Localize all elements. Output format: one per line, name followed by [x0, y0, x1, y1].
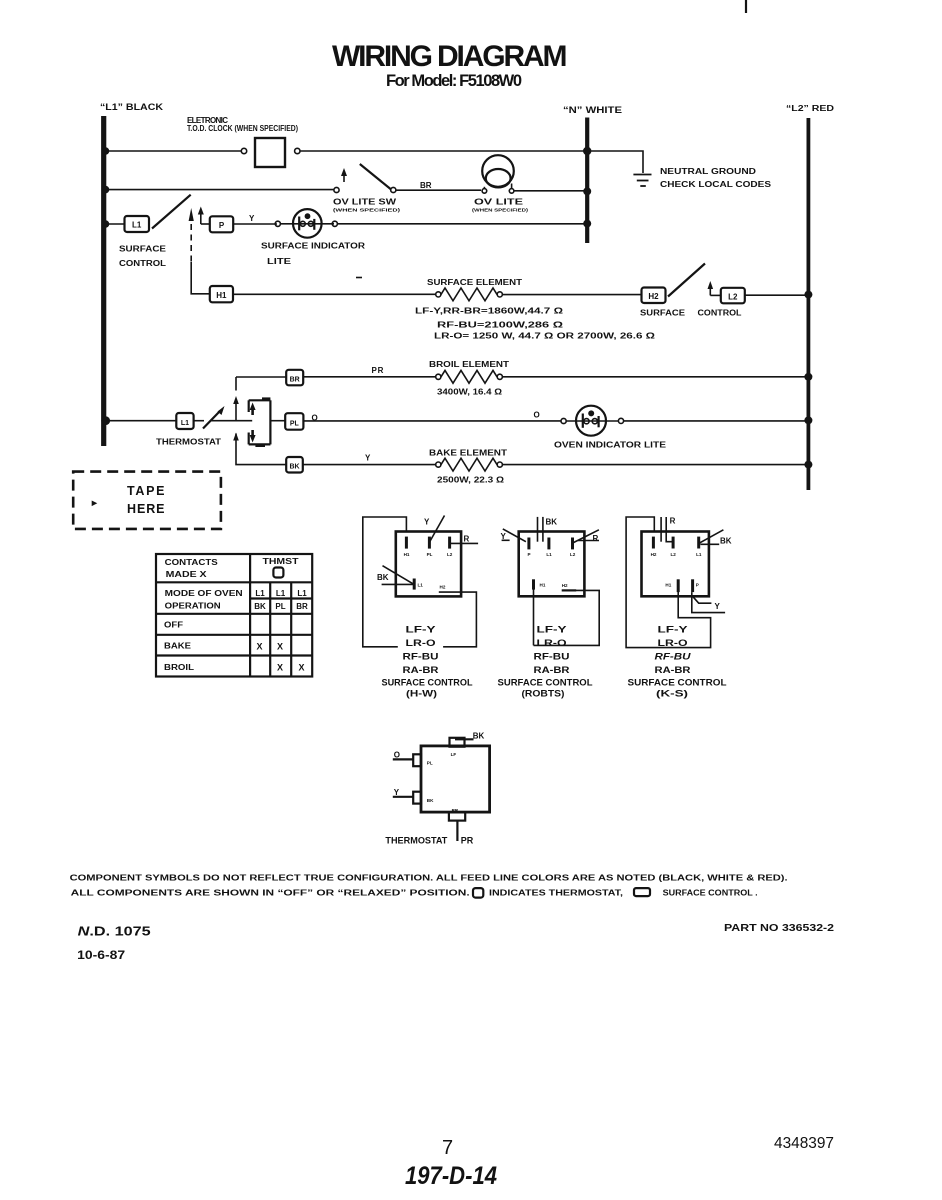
lamp DS2 surface indicator [281, 209, 335, 238]
table thermostat symbol [273, 568, 283, 578]
wire L1 to thermostat [104, 420, 176, 422]
svg-text:(WHEN SPECIFIED): (WHEN SPECIFIED) [333, 208, 401, 213]
bus L2 red [807, 118, 811, 490]
pin element right terminal [497, 292, 502, 297]
svg-text:HERE: HERE [127, 502, 167, 516]
lamp DS3 oven indicator [566, 406, 618, 436]
svg-text:L1: L1 [696, 552, 702, 557]
wire PL to oven indicator [304, 420, 561, 422]
svg-text:7: 7 [442, 1137, 453, 1159]
svg-text:BK: BK [473, 732, 485, 741]
sc3 pin L2 [672, 537, 675, 549]
relay contact L1 box [125, 216, 150, 232]
svg-text:SURFACE CONTROL: SURFACE CONTROL [498, 678, 594, 688]
svg-text:L2: L2 [671, 552, 677, 557]
svg-text:X: X [298, 662, 304, 672]
svg-text:TAPE: TAPE [127, 484, 167, 498]
sc2 box U3 [519, 532, 585, 597]
svg-text:INDICATES THERMOSTAT,: INDICATES THERMOSTAT, [489, 889, 623, 898]
sc3 wire R double [660, 517, 662, 542]
node junction L2 surface row [804, 291, 812, 299]
node junction N row2 [583, 187, 591, 195]
sc1 blade Y [429, 516, 445, 544]
svg-text:L1: L1 [276, 589, 286, 598]
thermostat tab Y [413, 792, 421, 804]
svg-text:THERMOSTAT: THERMOSTAT [156, 438, 221, 447]
pin broil right terminal [497, 374, 502, 379]
svg-text:RF-BU: RF-BU [534, 652, 570, 662]
bus L1 black [101, 116, 106, 446]
switch S1 blade [360, 164, 391, 189]
sc2 loop wire [534, 589, 600, 645]
wire BK to bake element [303, 464, 436, 466]
wire indicator to N [338, 223, 588, 225]
wire P to indicator [233, 223, 277, 225]
thermostat T1 box [249, 400, 271, 444]
svg-text:BK: BK [254, 602, 266, 611]
svg-text:Y: Y [424, 518, 430, 527]
wire arrow to L2 box [710, 294, 721, 296]
svg-text:For Model: F5108W0: For Model: F5108W0 [386, 72, 522, 90]
svg-text:OVEN INDICATOR LITE: OVEN INDICATOR LITE [554, 441, 667, 450]
sc3 pin P [691, 579, 694, 592]
clock U1 box [255, 138, 285, 167]
sc2 pin P [527, 538, 530, 550]
svg-text:H2: H2 [562, 583, 568, 588]
svg-text:RA-BR: RA-BR [534, 665, 571, 675]
contact arrow broil [233, 396, 239, 404]
wire linkage to H1 [191, 262, 209, 294]
wire bake to L2 [502, 464, 808, 466]
node junction L1 row1 [102, 147, 110, 155]
svg-text:P: P [219, 221, 225, 230]
sc2 blade R [572, 530, 599, 544]
node junction N row3 [583, 220, 591, 228]
footer surface control symbol [634, 888, 650, 896]
svg-text:SURFACE CONTROL: SURFACE CONTROL [382, 678, 474, 688]
pin indicator left terminal [275, 221, 280, 226]
stray mark [356, 277, 362, 279]
wire element to H2 [502, 294, 641, 296]
svg-text:3400W, 16.4 Ω: 3400W, 16.4 Ω [437, 388, 503, 397]
mech linkage arrowhead [189, 208, 194, 221]
svg-text:(WHEN SPECIFIED): (WHEN SPECIFIED) [472, 208, 529, 213]
svg-text:P: P [696, 583, 699, 588]
node junction L2 broil [804, 373, 812, 381]
relay contact P box [210, 216, 233, 232]
svg-text:H2: H2 [440, 585, 446, 590]
svg-text:BROIL: BROIL [164, 663, 194, 672]
surface control K-S unit [626, 517, 732, 699]
svg-text:4348397: 4348397 [774, 1135, 834, 1152]
resistor broil element [441, 370, 497, 383]
sc2 pin H1 [532, 579, 535, 589]
wire arrow to P box [201, 223, 210, 225]
contact arrow P [200, 212, 202, 224]
thermostat bottom tab [449, 812, 465, 821]
svg-text:LR-O: LR-O [406, 638, 436, 648]
svg-text:CHECK LOCAL CODES: CHECK LOCAL CODES [660, 180, 772, 189]
svg-text:BR: BR [290, 376, 300, 383]
svg-text:L1: L1 [132, 221, 142, 230]
svg-text:10-6-87: 10-6-87 [77, 948, 125, 962]
svg-text:PL: PL [275, 602, 285, 611]
relay contact L2 box [721, 288, 745, 304]
svg-text:BROIL ELEMENT: BROIL ELEMENT [429, 360, 509, 369]
svg-text:OV LITE: OV LITE [474, 198, 524, 207]
svg-text:CONTROL: CONTROL [698, 309, 742, 318]
relay contact H1 box [210, 286, 233, 302]
svg-text:SURFACE ELEMENT: SURFACE ELEMENT [427, 278, 522, 287]
thermostat tab O [413, 754, 421, 766]
sc1 pin H1 [405, 537, 408, 549]
relay contact BK box [286, 457, 303, 473]
sc1 blade BK [383, 566, 415, 585]
wire L2 box to L2 bus [745, 294, 808, 296]
thermostat inner arrow down [251, 430, 254, 438]
svg-text:LF: LF [451, 752, 457, 757]
sc3 wire Y [693, 596, 712, 603]
wire PR detail [456, 821, 458, 841]
sc2 pin L2 [571, 538, 574, 550]
svg-text:H1: H1 [404, 552, 410, 557]
svg-text:BR: BR [420, 181, 432, 190]
svg-text:THMST: THMST [263, 557, 299, 566]
svg-text:X: X [277, 642, 283, 652]
surface control ROBTS unit [498, 517, 600, 699]
sc2 pin L1 [547, 538, 550, 550]
node junction L2 bake [804, 461, 812, 469]
pin indicator right terminal [332, 221, 337, 226]
svg-text:RA-BR: RA-BR [403, 665, 440, 675]
node junction L1 thermostat [101, 416, 110, 425]
svg-text:SURFACE CONTROL: SURFACE CONTROL [628, 678, 728, 688]
svg-text:2500W, 22.3 Ω: 2500W, 22.3 Ω [437, 476, 505, 485]
contacts table frame [156, 554, 312, 677]
svg-text:L2: L2 [570, 552, 576, 557]
svg-text:L1: L1 [418, 583, 424, 588]
svg-text:LR-O: LR-O [658, 638, 688, 648]
sc1 pin L2 [448, 537, 451, 549]
svg-text:T.O.D. CLOCK (WHEN SPECIFIED): T.O.D. CLOCK (WHEN SPECIFIED) [187, 124, 298, 133]
pin oven-ind right terminal [618, 418, 623, 423]
node junction N row1 [583, 147, 591, 155]
svg-text:LF-Y: LF-Y [406, 625, 436, 635]
svg-text:BAKE ELEMENT: BAKE ELEMENT [429, 449, 507, 458]
ground neutral wire [589, 151, 643, 173]
svg-text:“L2” RED: “L2” RED [786, 104, 834, 113]
svg-text:H1: H1 [540, 583, 546, 588]
wire broil feed vertical [235, 377, 237, 391]
svg-text:Y: Y [249, 214, 255, 223]
svg-text:L1: L1 [181, 420, 189, 427]
svg-text:L2: L2 [447, 552, 453, 557]
svg-text:H1: H1 [216, 291, 227, 300]
sc3 box U4 [642, 532, 709, 597]
svg-text:SURFACE: SURFACE [640, 309, 686, 318]
svg-text:ALL COMPONENTS ARE SHOWN IN “O: ALL COMPONENTS ARE SHOWN IN “OFF” OR “RE… [71, 889, 470, 898]
svg-text:BAKE: BAKE [164, 642, 192, 651]
svg-text:LF-Y: LF-Y [537, 625, 567, 635]
sc3 blade BK [699, 530, 724, 544]
sc3 pin L1 [697, 537, 700, 549]
node junction L2 oven row [804, 416, 812, 424]
svg-text:LITE: LITE [267, 257, 292, 266]
svg-text:SURFACE: SURFACE [119, 245, 167, 254]
tape here box [73, 472, 221, 529]
pin broil left terminal [436, 374, 441, 379]
wire broil row left [236, 376, 286, 378]
svg-text:PR: PR [461, 836, 474, 846]
wire ov-lite to N [514, 190, 588, 192]
svg-text:BK: BK [427, 798, 434, 803]
switch blade surface control [152, 195, 191, 229]
wire Y detail [393, 796, 413, 798]
wire bake feed vertical [236, 441, 286, 465]
svg-text:L1: L1 [255, 589, 265, 598]
svg-text:H2: H2 [648, 292, 659, 301]
svg-text:Y: Y [365, 454, 371, 463]
svg-text:R: R [464, 535, 470, 544]
svg-text:NEUTRAL GROUND: NEUTRAL GROUND [660, 167, 756, 176]
svg-text:COMPONENT SYMBOLS DO NOT REFLE: COMPONENT SYMBOLS DO NOT REFLECT TRUE CO… [70, 874, 788, 883]
sc1 pin PL [428, 537, 431, 549]
pin element left terminal [436, 292, 441, 297]
svg-text:L2: L2 [728, 292, 738, 301]
pin switch S1 left terminal [334, 187, 339, 192]
wire switch to ov-lite [396, 189, 481, 191]
pin switch S1 right terminal [391, 187, 396, 192]
wire thermostat to PL [270, 420, 285, 422]
svg-text:OFF: OFF [164, 621, 183, 630]
wire broil to L2 [502, 376, 808, 378]
resistor surface element [441, 288, 497, 301]
thermostat body box [421, 746, 490, 812]
svg-text:H2: H2 [651, 552, 657, 557]
svg-text:MODE OF OVEN: MODE OF OVEN [165, 589, 243, 598]
relay contact H2 box [642, 288, 666, 304]
svg-text:LR-O: LR-O [537, 638, 567, 648]
svg-text:MADE X: MADE X [166, 570, 208, 579]
surface control H-W unit [363, 516, 478, 699]
wire BK detail [455, 738, 474, 740]
switch blade H2 [668, 264, 705, 297]
svg-text:BK: BK [720, 537, 732, 546]
svg-text:(H-W): (H-W) [406, 689, 437, 699]
svg-text:Y: Y [394, 788, 400, 797]
sc3 pin H2 [652, 537, 655, 549]
svg-text:SURFACE CONTROL .: SURFACE CONTROL . [663, 889, 758, 898]
svg-text:(ROBTS): (ROBTS) [522, 689, 565, 699]
svg-text:“L1” BLACK: “L1” BLACK [100, 102, 164, 112]
svg-text:Y: Y [715, 602, 721, 611]
wire L1 to clock [104, 150, 241, 152]
relay contact L1 thermostat box [176, 413, 193, 429]
svg-text:BR: BR [296, 602, 308, 611]
svg-text:WIRING DIAGRAM: WIRING DIAGRAM [332, 40, 570, 73]
svg-text:L1: L1 [546, 552, 552, 557]
sc1 outer loop wire [363, 517, 407, 647]
sc2 wire BK double [537, 517, 539, 542]
node junction L1 row3 [102, 220, 110, 228]
svg-text:BK: BK [377, 573, 389, 582]
thermostat detail unit [385, 732, 489, 846]
wire BR to broil element [303, 376, 436, 378]
wire O detail [393, 758, 413, 760]
svg-text:CONTROL: CONTROL [119, 259, 166, 268]
wire clock to N [300, 150, 587, 152]
pin clock left terminal [241, 148, 246, 153]
svg-text:THERMOSTAT: THERMOSTAT [385, 836, 447, 846]
sc1 pin L1 [413, 579, 416, 590]
wire L1 to ov-lite-switch [104, 189, 334, 191]
svg-text:L1: L1 [297, 589, 307, 598]
sc1 box U2 [396, 532, 461, 597]
pin clock right terminal [295, 148, 300, 153]
svg-text:X: X [256, 642, 262, 652]
svg-text:197-D-14: 197-D-14 [405, 1162, 497, 1190]
wire thermostat switch left [194, 420, 204, 422]
pin bake right terminal [497, 462, 502, 467]
svg-text:R: R [593, 534, 599, 543]
thermostat notch bottom [255, 444, 265, 447]
svg-text:O: O [394, 751, 400, 760]
ground symbol [633, 175, 651, 187]
thermostat contact vertical [235, 434, 237, 442]
svg-text:PR: PR [372, 366, 385, 375]
svg-text:H1: H1 [665, 583, 671, 588]
pin oven-ind left terminal [561, 418, 566, 423]
wire H1 to surface element [233, 293, 436, 295]
mech linkage dashed [190, 224, 192, 262]
relay contact BR box [286, 370, 303, 386]
resistor bake element [441, 458, 497, 471]
svg-text:RA-BR: RA-BR [655, 665, 692, 675]
sc2 blade Y [503, 529, 526, 542]
svg-text:RF-BU: RF-BU [655, 652, 692, 662]
svg-text:LF-Y: LF-Y [658, 625, 688, 635]
svg-text:PL: PL [427, 552, 433, 557]
svg-text:LF-Y,RR-BR=1860W,44.7 Ω: LF-Y,RR-BR=1860W,44.7 Ω [415, 307, 564, 316]
svg-text:CONTACTS: CONTACTS [165, 558, 219, 567]
svg-text:OPERATION: OPERATION [165, 602, 221, 611]
sc3 wire P lower [692, 592, 725, 613]
svg-text:PL: PL [290, 420, 300, 427]
sc3 pin H1 [677, 579, 680, 592]
svg-text:BK: BK [289, 464, 299, 471]
lamp DS1 ov lite [482, 155, 514, 187]
thermostat notch top [262, 397, 270, 400]
svg-text:PL: PL [427, 761, 433, 766]
wire oven-ind to L2 [624, 420, 808, 422]
contact arrow L2 [709, 287, 711, 295]
svg-text:Y: Y [501, 532, 507, 541]
footer thermostat symbol [473, 888, 483, 898]
svg-text:R: R [670, 517, 676, 526]
svg-text:SURFACE INDICATOR: SURFACE INDICATOR [261, 242, 365, 251]
sc3 outer loop wire [626, 517, 711, 648]
bus N white [585, 118, 589, 244]
svg-text:RF-BU: RF-BU [403, 652, 439, 662]
sc1 wire BK [382, 583, 413, 585]
svg-text:PART NO 336532-2: PART NO 336532-2 [724, 923, 835, 934]
wire thermostat switch right [210, 420, 252, 422]
pin bake left terminal [436, 462, 441, 467]
svg-text:LR-O= 1250 W, 44.7 Ω OR 2700W,: LR-O= 1250 W, 44.7 Ω OR 2700W, 26.6 Ω [434, 332, 656, 341]
thermostat top tab [450, 738, 465, 747]
svg-text:O: O [534, 411, 540, 420]
svg-text:RF-BU=2100W,286 Ω: RF-BU=2100W,286 Ω [437, 321, 564, 330]
svg-text:P: P [527, 552, 530, 557]
svg-text:OV LITE SW: OV LITE SW [333, 198, 397, 207]
svg-text:X: X [277, 662, 283, 672]
svg-text:N.D. 1075: N.D. 1075 [78, 924, 151, 939]
registration tick top [745, 0, 747, 13]
relay contact PL box [285, 413, 303, 430]
sc1 wire R [450, 542, 479, 544]
wire L1 to surface-control-L1 [104, 223, 124, 225]
thermostat inner arrow up [251, 407, 254, 415]
tape here arrow [92, 501, 98, 507]
svg-text:(K-S): (K-S) [656, 689, 688, 699]
switch S1 actuator arrow [343, 172, 345, 182]
switch blade thermostat [203, 411, 220, 429]
svg-text:BK: BK [546, 518, 558, 527]
svg-text:“N” WHITE: “N” WHITE [563, 105, 622, 115]
node junction L1 row2 [102, 186, 110, 194]
